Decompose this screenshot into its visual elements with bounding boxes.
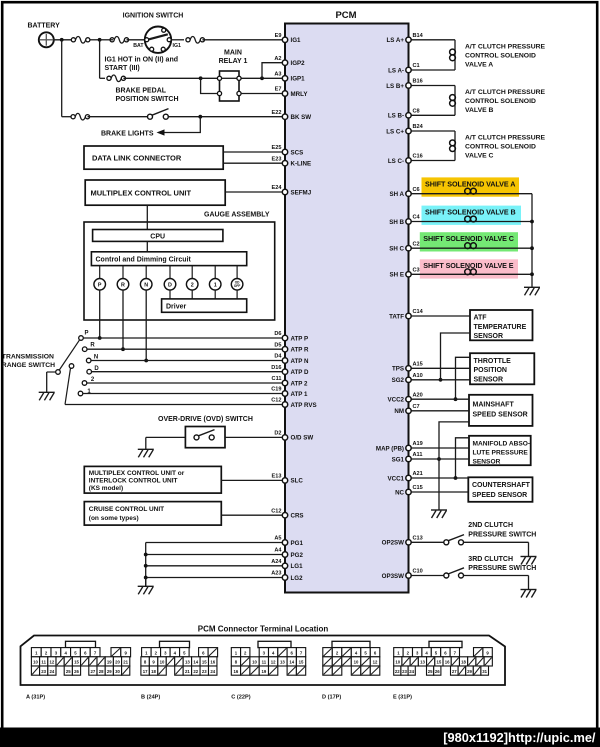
cruise control unit box — [84, 502, 221, 525]
range switch pole — [56, 370, 61, 375]
pin E24 SEFMJ — [282, 189, 287, 194]
pin E7 MRLY — [282, 91, 287, 96]
svg-text:D (17P): D (17P) — [322, 694, 341, 700]
pin E23 K-LINE — [282, 161, 287, 166]
svg-text:IG1 HOT in ON (II) and: IG1 HOT in ON (II) and — [105, 56, 179, 63]
svg-text:SENSOR: SENSOR — [474, 333, 504, 340]
svg-text:17: 17 — [143, 669, 148, 674]
svg-text:MRLY: MRLY — [291, 91, 309, 98]
wire ATP D line — [92, 371, 286, 373]
multiplex-interlock control unit box — [84, 466, 221, 493]
wire to brake lights arrow — [161, 117, 200, 133]
wiper arm to P — [59, 340, 79, 370]
svg-text:12: 12 — [271, 660, 276, 665]
ground bus junctions — [145, 543, 147, 587]
shift solenoid valve C highlight box — [420, 232, 518, 251]
svg-text:P: P — [84, 331, 88, 337]
wiper arm to RVS line — [65, 368, 71, 404]
svg-text:VCC1: VCC1 — [387, 475, 404, 482]
shift solenoid valve C coil and wire — [409, 247, 533, 249]
svg-text:START (III): START (III) — [105, 65, 140, 72]
svg-text:C12: C12 — [271, 508, 281, 514]
ground G204 3rd clutch switch — [528, 576, 530, 590]
svg-text:2: 2 — [191, 282, 194, 288]
svg-text:12: 12 — [373, 660, 378, 665]
svg-text:CRS: CRS — [291, 513, 304, 520]
svg-text:GAUGE ASSEMBLY: GAUGE ASSEMBLY — [204, 211, 270, 218]
svg-text:A10: A10 — [413, 373, 423, 379]
svg-text:PG2: PG2 — [291, 552, 304, 559]
svg-text:PCM Connector Terminal Locatio: PCM Connector Terminal Location — [198, 625, 329, 634]
svg-text:27: 27 — [452, 669, 457, 674]
watermark bar — [0, 728, 600, 747]
wire to pin E13 SLC — [221, 479, 285, 481]
svg-text:D2: D2 — [274, 431, 281, 437]
svg-text:15: 15 — [437, 660, 442, 665]
ATF temperature sensor box — [470, 310, 533, 340]
svg-text:SG1: SG1 — [392, 456, 405, 463]
pin A3 IGP1 — [282, 76, 287, 81]
wire ATP R line — [87, 348, 285, 350]
wire to pin C12 CRS — [221, 514, 285, 516]
junction brake lights tap — [198, 115, 202, 119]
connector E (31P) pin grid — [394, 648, 403, 657]
pin A2 IGP2 — [282, 60, 287, 65]
svg-text:C (22P): C (22P) — [231, 694, 250, 700]
pin E13 SLC — [282, 478, 287, 483]
range switch contact D — [87, 369, 92, 374]
svg-text:ATF: ATF — [474, 315, 488, 322]
svg-text:TATF: TATF — [389, 313, 404, 320]
wire ignition to pin E9 — [171, 39, 184, 41]
wire TPS signal — [409, 367, 471, 369]
manifold absolute pressure sensor box — [469, 436, 531, 465]
svg-text:C1: C1 — [413, 63, 420, 69]
svg-text:23: 23 — [202, 669, 207, 674]
svg-text:C10: C10 — [413, 569, 423, 575]
svg-text:10: 10 — [354, 660, 359, 665]
wire ATP RVS line — [65, 404, 285, 406]
svg-text:B (24P): B (24P) — [141, 694, 160, 700]
svg-text:PCM: PCM — [335, 10, 356, 21]
svg-text:31: 31 — [482, 669, 487, 674]
svg-text:D6: D6 — [274, 331, 281, 337]
svg-text:N: N — [144, 282, 148, 288]
wire relay lower rail to pin E7 — [201, 78, 218, 93]
svg-text:11: 11 — [41, 660, 46, 665]
mainshaft speed sensor box — [469, 395, 533, 426]
svg-text:16: 16 — [234, 669, 239, 674]
svg-text:21: 21 — [123, 660, 128, 665]
svg-text:COUNTERSHAFT: COUNTERSHAFT — [472, 482, 531, 489]
svg-text:D5: D5 — [274, 342, 281, 348]
svg-text:P: P — [98, 282, 102, 288]
svg-text:C19: C19 — [271, 387, 281, 393]
svg-text:29: 29 — [467, 669, 472, 674]
svg-text:25: 25 — [66, 669, 71, 674]
pin E9 IG1 — [282, 37, 287, 42]
svg-text:LS A+: LS A+ — [387, 37, 405, 44]
wire DLC to pin E23 K-LINE — [223, 162, 285, 164]
svg-text:D16: D16 — [271, 365, 281, 371]
svg-text:Control and Dimming Circuit: Control and Dimming Circuit — [96, 257, 192, 264]
svg-text:OP2SW: OP2SW — [382, 540, 405, 547]
connector C104 on rail — [107, 76, 111, 80]
connector D (17P) pin grid — [323, 648, 333, 657]
svg-text:LS B-: LS B- — [388, 113, 404, 120]
connector C105 brake feed — [71, 115, 75, 119]
svg-text:C6: C6 — [413, 187, 420, 193]
wire VCC2 line — [409, 398, 470, 400]
svg-text:19: 19 — [107, 660, 112, 665]
pin E25 SCS — [282, 149, 287, 154]
svg-text:SENSOR: SENSOR — [474, 376, 504, 383]
svg-text:E22: E22 — [272, 110, 282, 116]
svg-text:E23: E23 — [272, 156, 282, 162]
svg-text:LS A-: LS A- — [388, 67, 404, 74]
svg-text:C7: C7 — [413, 404, 420, 410]
svg-text:SPEED SENSOR: SPEED SENSOR — [473, 411, 528, 418]
svg-text:VALVE A: VALVE A — [465, 61, 493, 68]
svg-text:A19: A19 — [413, 441, 423, 447]
svg-text:15: 15 — [74, 660, 79, 665]
svg-text:(KS model): (KS model) — [89, 485, 123, 492]
svg-text:SLC: SLC — [291, 478, 304, 485]
range switch pins — [282, 335, 287, 340]
svg-text:MULTIPLEX CONTROL UNIT: MULTIPLEX CONTROL UNIT — [91, 188, 192, 197]
svg-text:26: 26 — [435, 669, 440, 674]
svg-text:B24: B24 — [413, 124, 424, 130]
svg-text:20: 20 — [115, 660, 120, 665]
svg-text:ATP P: ATP P — [291, 335, 309, 342]
A/T clutch pressure control solenoid valve C LC — [409, 130, 456, 132]
wire TATF to sensor — [409, 315, 471, 317]
svg-text:LS B+: LS B+ — [386, 83, 404, 90]
shift solenoid valve A coil and wire — [409, 193, 533, 195]
svg-text:PG1: PG1 — [291, 540, 304, 547]
svg-text:NM: NM — [394, 408, 404, 415]
svg-text:A11: A11 — [413, 452, 423, 458]
svg-text:TRANSMISSION: TRANSMISSION — [2, 353, 54, 360]
pin A20 VCC2 — [406, 397, 411, 402]
svg-text:25: 25 — [428, 669, 433, 674]
junction A2 branch — [260, 76, 264, 80]
range switch contact R — [82, 347, 87, 352]
svg-text:IG1: IG1 — [173, 43, 181, 49]
wire junction to connector — [88, 39, 101, 41]
wire MUX down to CPU — [146, 205, 148, 229]
svg-text:22: 22 — [193, 669, 198, 674]
reverse contact — [69, 364, 74, 369]
svg-text:A4: A4 — [274, 548, 282, 554]
svg-text:BAT: BAT — [133, 43, 144, 49]
svg-text:ATP RVS: ATP RVS — [291, 402, 317, 409]
svg-text:CONTROL SOLENOID: CONTROL SOLENOID — [465, 98, 536, 105]
svg-text:ATP N: ATP N — [291, 358, 310, 365]
svg-text:VALVE C: VALVE C — [465, 153, 494, 160]
pin C15 NC — [406, 489, 411, 494]
svg-text:E24: E24 — [272, 185, 283, 191]
svg-text:OP3SW: OP3SW — [382, 573, 405, 580]
svg-text:A23: A23 — [271, 571, 281, 577]
connector C101 in battery feed — [71, 38, 75, 42]
svg-text:LG2: LG2 — [291, 575, 304, 582]
svg-text:RANGE SWITCH: RANGE SWITCH — [2, 362, 55, 369]
svg-text:13: 13 — [185, 660, 190, 665]
svg-text:CRUISE CONTROL UNIT: CRUISE CONTROL UNIT — [89, 506, 164, 513]
svg-text:N: N — [94, 355, 98, 361]
svg-text:MAINSHAFT: MAINSHAFT — [473, 401, 515, 408]
wire SG1 line — [409, 458, 470, 460]
svg-text:CONTROL SOLENOID: CONTROL SOLENOID — [465, 52, 536, 59]
wire DLC to pin E25 SCS — [223, 151, 285, 153]
svg-text:D: D — [168, 282, 172, 288]
svg-text:MAP (PB): MAP (PB) — [376, 445, 404, 452]
svg-text:CONTROL SOLENOID: CONTROL SOLENOID — [465, 144, 536, 151]
svg-text:DATA LINK CONNECTOR: DATA LINK CONNECTOR — [92, 153, 182, 162]
connector B keying tab — [160, 641, 190, 647]
A/T clutch pressure control solenoid valve A LA — [409, 39, 456, 41]
svg-text:A (31P): A (31P) — [26, 694, 45, 700]
svg-text:15: 15 — [299, 660, 304, 665]
ground G202 sensor grounds — [431, 509, 447, 511]
pin A21 VCC1 — [406, 475, 411, 480]
connector D keying tab — [332, 641, 370, 647]
svg-text:22: 22 — [395, 669, 400, 674]
svg-text:10: 10 — [160, 660, 165, 665]
svg-text:24: 24 — [50, 669, 55, 674]
connector panel outline — [21, 636, 506, 686]
battery BAT — [39, 32, 54, 47]
junction battery bus — [60, 38, 64, 42]
connector C (22P) pin grid — [231, 648, 240, 657]
pin C13 OP2SW — [406, 540, 411, 545]
svg-text:OVER-DRIVE (OVD) SWITCH: OVER-DRIVE (OVD) SWITCH — [158, 416, 253, 423]
wire SG2 line — [409, 379, 471, 381]
wire shift solenoid common bus — [531, 194, 533, 288]
svg-text:A20: A20 — [413, 392, 423, 398]
svg-text:SH E: SH E — [390, 272, 404, 279]
svg-text:27: 27 — [91, 669, 96, 674]
wire rail to relay and pin A3 — [201, 77, 218, 79]
wire battery to junction — [54, 39, 72, 41]
svg-text:30: 30 — [115, 669, 120, 674]
svg-text:TEMPERATURE: TEMPERATURE — [474, 324, 527, 331]
shift solenoid valve B coil and wire — [409, 221, 533, 223]
svg-text:28: 28 — [99, 669, 104, 674]
control and dimming circuit box — [91, 252, 246, 266]
svg-text:C11: C11 — [272, 376, 282, 382]
junction IG1-hot tap — [98, 38, 102, 42]
svg-text:14: 14 — [289, 660, 294, 665]
pins A5 A4 A24 A23 — [282, 540, 287, 545]
svg-text:B16: B16 — [413, 79, 423, 85]
svg-text:SH A: SH A — [389, 191, 404, 198]
svg-text:POSITION: POSITION — [474, 367, 507, 374]
svg-text:15: 15 — [202, 660, 207, 665]
svg-text:LUTE PRESSURE: LUTE PRESSURE — [473, 449, 529, 456]
svg-text:16: 16 — [445, 660, 450, 665]
wire MUX to pin E24 SEFMJ — [225, 191, 285, 193]
svg-text:3RD CLUTCH: 3RD CLUTCH — [468, 556, 513, 563]
svg-text:VCC2: VCC2 — [387, 397, 404, 404]
svg-text:SHIFT SOLENOID VALVE B: SHIFT SOLENOID VALVE B — [425, 208, 516, 217]
svg-text:CPU: CPU — [150, 234, 165, 241]
svg-text:PRESSURE SWITCH: PRESSURE SWITCH — [468, 531, 536, 538]
wire VCC2 riser to TPS — [456, 357, 471, 399]
svg-text:BATTERY: BATTERY — [28, 22, 61, 29]
svg-text:A21: A21 — [413, 471, 423, 477]
pin A10 SG2 — [406, 377, 411, 382]
pin E22 BK SW — [282, 114, 287, 119]
svg-text:C13: C13 — [413, 536, 423, 542]
svg-text:TPS: TPS — [392, 366, 404, 373]
wire PG1 line — [146, 542, 285, 544]
indicator lamp circles P R N D 2 1 OD — [99, 266, 101, 279]
svg-text:ATP D: ATP D — [291, 369, 310, 376]
connector A keying tab — [66, 641, 96, 647]
wire NM signal — [409, 410, 470, 412]
svg-text:LG1: LG1 — [291, 563, 304, 570]
wire battery bus down to brake line — [61, 40, 63, 117]
svg-text:E (31P): E (31P) — [393, 694, 412, 700]
svg-text:18: 18 — [461, 660, 466, 665]
svg-text:SCS: SCS — [291, 149, 304, 156]
wire OVD to ground — [146, 436, 186, 438]
connector C102 — [110, 38, 114, 42]
wire ATF sensor ground to SG2 — [441, 333, 471, 380]
range switch contact P — [79, 336, 84, 341]
wire MAP vcc riser — [456, 438, 470, 478]
wire OVD to pin D2 — [225, 436, 285, 438]
shift solenoid valve B highlight box — [422, 206, 522, 225]
shift solenoid valve E highlight box — [420, 259, 518, 278]
CPU box — [93, 230, 223, 242]
svg-text:SH C: SH C — [389, 246, 404, 253]
svg-text:IGP2: IGP2 — [291, 60, 306, 67]
wire MAP signal — [409, 447, 470, 449]
multiplex control unit box — [85, 180, 225, 205]
svg-text:C12: C12 — [271, 398, 281, 404]
wire LG2 line — [146, 577, 285, 579]
svg-text:Driver: Driver — [166, 304, 187, 311]
svg-text:NC: NC — [395, 489, 404, 496]
A/T clutch pressure control solenoid valve B LB — [409, 85, 456, 87]
svg-text:IG1: IG1 — [291, 37, 302, 44]
svg-text:D4: D4 — [274, 354, 282, 360]
svg-text:B14: B14 — [413, 33, 424, 39]
svg-text:29: 29 — [107, 669, 112, 674]
wire PG2 line — [146, 554, 285, 556]
svg-text:10: 10 — [395, 660, 400, 665]
wire IG1 hot rail — [99, 40, 101, 79]
wires P R N lamps down to range switch lines — [99, 290, 101, 338]
svg-text:C8: C8 — [413, 109, 420, 115]
pin A19 MAP (PB) — [406, 445, 411, 450]
svg-text:16: 16 — [210, 660, 215, 665]
connector C keying tab — [258, 641, 291, 647]
wire ATP 1 line — [83, 393, 285, 395]
svg-text:19: 19 — [261, 669, 266, 674]
svg-text:13: 13 — [420, 660, 425, 665]
svg-text:C14: C14 — [413, 309, 424, 315]
PCM control module U1 (main box) — [285, 24, 409, 593]
svg-text:MULTIPLEX CONTROL UNIT or: MULTIPLEX CONTROL UNIT or — [89, 470, 185, 477]
svg-text:21: 21 — [185, 669, 190, 674]
svg-text:PRESSURE SWITCH: PRESSURE SWITCH — [468, 565, 536, 572]
wire ATP 2 line — [87, 382, 285, 384]
svg-text:IGNITION SWITCH: IGNITION SWITCH — [123, 13, 184, 20]
svg-text:C15: C15 — [413, 485, 423, 491]
svg-text:1: 1 — [214, 282, 217, 288]
wire CPU to control circuit — [146, 241, 148, 251]
svg-text:THROTTLE: THROTTLE — [474, 358, 512, 365]
junction relay feed — [199, 76, 203, 80]
svg-text:ATP R: ATP R — [291, 347, 310, 354]
wire VCC1 line — [409, 477, 469, 479]
svg-text:IGP1: IGP1 — [291, 76, 306, 83]
ground G203 2nd clutch switch — [528, 542, 530, 556]
data link connector box — [84, 146, 223, 169]
svg-text:13: 13 — [280, 660, 285, 665]
wire NC line — [409, 491, 469, 493]
svg-text:SPEED SENSOR: SPEED SENSOR — [472, 492, 527, 499]
svg-text:18: 18 — [151, 669, 156, 674]
pin C7 NM — [406, 408, 411, 413]
svg-text:MAIN: MAIN — [224, 50, 242, 57]
svg-text:SHIFT SOLENOID VALVE C: SHIFT SOLENOID VALVE C — [423, 234, 514, 243]
wire mainshaft sensor ground — [439, 422, 469, 510]
connector A (31P) pin grid — [31, 648, 41, 657]
svg-text:MANIFOLD ABSO-: MANIFOLD ABSO- — [473, 440, 531, 447]
svg-text:INTERLOCK CONTROL UNIT: INTERLOCK CONTROL UNIT — [89, 478, 178, 485]
svg-text:C2: C2 — [413, 241, 420, 247]
svg-text:23: 23 — [402, 669, 407, 674]
svg-text:LS C-: LS C- — [388, 158, 404, 165]
range switch contact N — [86, 358, 91, 363]
svg-text:A24: A24 — [271, 559, 282, 565]
pin C12 CRS — [282, 513, 287, 518]
svg-text:A5: A5 — [274, 536, 281, 542]
svg-text:R: R — [90, 343, 95, 349]
svg-text:SENSOR: SENSOR — [473, 458, 501, 465]
svg-text:BRAKE PEDAL: BRAKE PEDAL — [116, 88, 167, 95]
pin C10 OP3SW — [406, 573, 411, 578]
svg-text:VALVE B: VALVE B — [465, 107, 494, 114]
svg-text:K-LINE: K-LINE — [291, 161, 312, 168]
svg-text:LS C+: LS C+ — [386, 128, 404, 135]
svg-text:[980x1192]http://upic.me/: [980x1192]http://upic.me/ — [443, 730, 596, 745]
countershaft speed sensor box — [468, 477, 532, 502]
svg-text:11: 11 — [262, 660, 267, 665]
svg-text:14: 14 — [193, 660, 198, 665]
pin C14 TATF — [406, 313, 411, 318]
svg-text:OFF: OFF — [234, 284, 240, 288]
svg-text:A/T CLUTCH PRESSURE: A/T CLUTCH PRESSURE — [465, 89, 546, 96]
svg-text:A3: A3 — [274, 72, 281, 78]
shift solenoid valve A highlight box — [422, 177, 520, 196]
ground G101 range switch — [46, 372, 48, 392]
connector B (24P) pin grid — [142, 648, 152, 657]
svg-text:SG2: SG2 — [392, 377, 405, 384]
ground G102 OVD switch — [145, 437, 147, 449]
svg-text:C16: C16 — [413, 154, 423, 160]
wire LG1 line — [146, 565, 285, 567]
connector E keying tab — [429, 641, 462, 647]
svg-text:E13: E13 — [272, 474, 282, 480]
wire ATP N line — [91, 360, 285, 362]
driver box — [162, 299, 247, 312]
